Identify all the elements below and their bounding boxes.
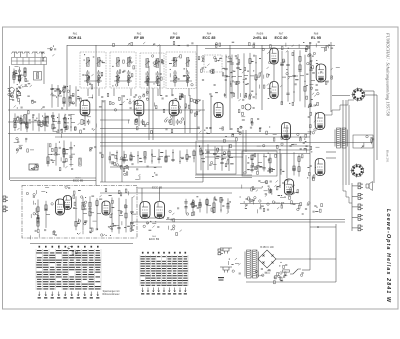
IF lead down xyxy=(87,89,89,97)
switch blob xyxy=(29,164,38,170)
coupling caps xyxy=(194,99,201,116)
loudspeaker/aerial jack at y=204 xyxy=(358,204,363,210)
bus cathode rail xyxy=(8,109,205,111)
wire AGC riser xyxy=(66,45,68,110)
fuse Si1 xyxy=(283,270,290,272)
jack stub xyxy=(352,216,358,218)
choke L5 xyxy=(79,158,82,166)
bridge rectifier Gr1 xyxy=(258,250,276,268)
Fi1 secondary winding xyxy=(87,76,89,83)
svg-text:ECC 80: ECC 80 xyxy=(275,36,288,40)
table pin arrow xyxy=(84,292,86,297)
Fi2 secondary winding xyxy=(128,76,130,83)
UKW tuner enclosure (dash-dot) xyxy=(22,186,137,239)
transformer rating labels xyxy=(251,272,287,284)
wire af feed xyxy=(136,187,262,189)
wire right riser 2 xyxy=(376,95,378,160)
Fi1 core adjust xyxy=(86,60,90,64)
UKW IF output ladder xyxy=(111,197,136,234)
jack stub xyxy=(352,227,358,229)
table pin arrow xyxy=(71,292,73,297)
Fi1 tuning capacitor xyxy=(86,70,90,76)
cathode network xyxy=(75,117,97,133)
UKW input ladder xyxy=(36,200,50,230)
table pin arrow xyxy=(168,288,170,293)
valve V7 ECL 82 triode section xyxy=(282,123,291,140)
Fi2 lead xyxy=(117,77,119,86)
wire right HT rail xyxy=(309,42,311,222)
table pin label xyxy=(38,297,41,298)
cathode lead xyxy=(84,116,86,126)
table pin arrow xyxy=(38,292,40,297)
splitter coupling caps xyxy=(167,208,182,236)
UKW IF output xyxy=(110,200,133,236)
Fi3 winding xyxy=(156,59,159,68)
UKW mixer triode xyxy=(102,201,110,215)
grid components xyxy=(76,95,93,102)
EL95 anode parts xyxy=(316,60,340,84)
valve socket voltage table 1 xyxy=(36,246,101,290)
IF lead down xyxy=(146,89,148,97)
Fi4 secondary winding xyxy=(186,76,188,83)
wire riser c xyxy=(210,95,212,133)
Fi1 winding xyxy=(97,58,100,67)
wire mid rail 2 xyxy=(205,153,310,155)
cathode bypass capacitor xyxy=(176,119,180,125)
wire osc rail xyxy=(8,121,46,123)
loudspeaker/aerial jack at y=193.5 xyxy=(358,194,363,200)
Fi4 secondary adjust xyxy=(186,77,190,81)
wire under tuner xyxy=(30,243,133,245)
table pin arrow xyxy=(163,288,165,293)
wire to detector xyxy=(100,181,203,183)
Fi2 detail xyxy=(112,57,134,87)
wire right riser xyxy=(330,42,332,112)
value labels above filters xyxy=(113,41,194,46)
tone filter parts xyxy=(244,153,277,175)
wire HT riser xyxy=(335,224,337,282)
AF output network xyxy=(240,179,299,214)
svg-text:ECH 81: ECH 81 xyxy=(69,36,82,40)
aerial filter ladder xyxy=(12,67,26,84)
Fi1 detail xyxy=(82,54,105,89)
demodulator row y58 xyxy=(198,55,261,63)
table pin arrow xyxy=(142,288,144,293)
wire top HT run 2 xyxy=(205,48,310,50)
wire af feed 2 xyxy=(100,192,232,194)
Fi3 lead xyxy=(156,78,158,86)
UKW oscillator ladder xyxy=(75,196,101,230)
table pin label xyxy=(141,293,144,294)
AF output row xyxy=(244,195,302,207)
Fi1 secondary winding xyxy=(98,76,100,83)
trimmer C1 xyxy=(10,88,15,93)
top cap row xyxy=(305,45,333,52)
demodulator row y70 xyxy=(201,67,263,76)
IF lead down xyxy=(171,89,173,97)
loudspeaker/aerial jack at y=214.5 xyxy=(358,215,363,221)
junction xyxy=(317,226,319,228)
jack stub xyxy=(352,195,358,197)
wire det riser 2 xyxy=(261,45,263,110)
mixer grid parts xyxy=(50,86,74,109)
tube socket S1 (underside view) xyxy=(352,88,366,102)
table pin label xyxy=(173,293,176,294)
valve V3 EF 89 xyxy=(169,100,179,116)
valve V4 EABC 80 triode xyxy=(214,103,223,118)
mains dropper xyxy=(59,245,77,255)
Fi2 link xyxy=(114,80,132,82)
cathode lead xyxy=(173,116,175,126)
wire riser 3 xyxy=(121,95,123,182)
wire splitter anode a xyxy=(141,188,143,202)
Fi4 winding xyxy=(174,58,177,67)
valve V7 ECL 82 pentode section xyxy=(284,179,293,195)
IF lead down xyxy=(113,89,115,97)
svg-text:ECC 85: ECC 85 xyxy=(203,36,216,40)
svg-text:Rö10: Rö10 xyxy=(76,177,82,179)
Fi2 secondary winding xyxy=(117,76,119,83)
volume control group xyxy=(49,142,74,171)
IF transformer Fi4 shield (dashed) xyxy=(166,52,196,89)
tube socket S2 (underside view) xyxy=(351,164,365,178)
wire riser xyxy=(245,130,247,152)
aerial terminal xyxy=(17,52,23,57)
wire bottom rail left 2 xyxy=(10,180,96,182)
table pin arrow xyxy=(184,288,186,293)
wire riser xyxy=(242,130,244,175)
table pin arrow xyxy=(51,292,53,297)
IF lead down xyxy=(188,89,190,97)
Fi4 lead xyxy=(174,77,176,87)
table pin label xyxy=(146,293,149,294)
demodulator row y95 xyxy=(209,92,256,99)
wire af bus 1 xyxy=(195,174,252,176)
mains filter caps xyxy=(228,258,241,274)
tone switch bank xyxy=(297,202,323,215)
mixer grid ladder xyxy=(50,84,80,108)
oscillator coil L4 xyxy=(46,116,49,124)
bus ground return xyxy=(133,221,345,223)
wire riser a xyxy=(184,95,186,133)
cathode resistor xyxy=(81,120,83,125)
table pin arrow xyxy=(158,288,160,293)
Fi3 secondary winding xyxy=(156,77,158,84)
Fi3 core adjust xyxy=(145,61,149,65)
wire output return xyxy=(166,219,345,221)
interstage coupling xyxy=(99,93,139,111)
valve V11 ECC 83 section a xyxy=(140,202,150,219)
loudspeaker symbol xyxy=(366,182,373,191)
cathode bypass capacitor xyxy=(87,119,91,125)
valve V6 EL 84 xyxy=(270,82,278,99)
ratio detector shield xyxy=(204,55,222,72)
svg-text:EF 89: EF 89 xyxy=(134,36,144,40)
IF lead down xyxy=(157,89,159,97)
output grid parts xyxy=(307,52,319,68)
Fi2 tuning capacitor xyxy=(127,70,131,76)
Fi1 lead xyxy=(87,77,89,86)
Fi4 tuning capacitor xyxy=(173,70,177,76)
Fi2 secondary adjust xyxy=(127,77,131,81)
Fi4 core adjust xyxy=(186,60,190,64)
Fi1 link xyxy=(84,80,102,82)
volume group ladder xyxy=(46,140,75,167)
aerial terminal xyxy=(11,52,17,57)
Fi3 lead xyxy=(146,78,148,86)
wire under tube link xyxy=(100,119,130,121)
wire screen riser 2 xyxy=(152,88,154,140)
Fi1 secondary adjust xyxy=(86,77,90,81)
wire socket right 1 xyxy=(364,90,374,92)
wire jack rail xyxy=(351,183,353,231)
output grid parts 3 xyxy=(307,166,316,181)
Fi2 lead xyxy=(128,77,130,86)
jack stub xyxy=(352,206,358,208)
aerial coupling bar xyxy=(12,58,47,65)
bass control group xyxy=(90,147,102,153)
Fi3 tuning capacitor xyxy=(156,71,160,77)
svg-text:B 250 C 100: B 250 C 100 xyxy=(260,246,274,249)
Fi1 secondary adjust xyxy=(97,77,101,81)
value labels above HT run xyxy=(215,42,328,49)
bus AVC line xyxy=(8,133,310,135)
table pin label xyxy=(96,297,99,298)
Fi3 secondary winding xyxy=(146,77,148,84)
table pin arrow xyxy=(174,288,176,293)
tone register parts xyxy=(361,135,374,148)
valve V12 ECC 85 triode a xyxy=(56,199,65,215)
wave trap winding xyxy=(36,73,38,79)
valve V9 EL 84 xyxy=(315,113,325,130)
valve V11 ECC 83 section b xyxy=(155,202,165,219)
table pin label xyxy=(57,297,60,298)
wire anode to transformer 2 xyxy=(326,157,336,159)
Fi4 secondary winding xyxy=(174,76,176,83)
tone control ladder xyxy=(200,144,234,171)
power transformer T1 xyxy=(245,250,259,278)
wire right riser 1 xyxy=(373,91,375,183)
wire splitter anode b xyxy=(159,188,161,201)
svg-text:EL 95: EL 95 xyxy=(311,36,321,40)
right parts ladder xyxy=(304,54,315,107)
table pin label xyxy=(168,293,171,294)
IF transformer Fi3 shield (dashed) xyxy=(140,53,164,88)
Fi2 tuning capacitor xyxy=(116,70,120,76)
splitter RC ladder xyxy=(184,197,231,213)
table pin label xyxy=(77,297,80,298)
cathode resistor xyxy=(135,120,137,125)
output stage coupling xyxy=(253,181,285,209)
bus heater line xyxy=(55,136,310,138)
neg feedback net xyxy=(306,84,319,107)
cathode resistor xyxy=(170,120,172,125)
svg-text:Blatt 291: Blatt 291 xyxy=(386,150,390,163)
loudspeaker/aerial jack at y=183 xyxy=(358,183,363,189)
table pin arrow xyxy=(179,288,181,293)
demodulator ladder xyxy=(224,53,260,99)
wire switch to rail xyxy=(302,269,310,271)
grid components xyxy=(172,94,184,100)
table pin arrow xyxy=(152,288,154,293)
AGC divider xyxy=(116,164,157,180)
Fi3 core adjust xyxy=(155,61,159,65)
svg-text:EF 89: EF 89 xyxy=(170,36,180,40)
UKW oscillator circuit xyxy=(73,196,102,235)
oscillator ladder xyxy=(51,112,75,133)
grid components xyxy=(130,95,147,103)
wire HT out xyxy=(276,258,336,260)
svg-text:ECC 85: ECC 85 xyxy=(152,186,163,190)
table pin label xyxy=(83,297,86,298)
wire riser xyxy=(286,125,288,178)
jack stub xyxy=(352,185,358,187)
wire speaker lead 3 xyxy=(348,105,350,185)
loudspeaker/aerial jack at y=225 xyxy=(358,225,363,231)
table pin label xyxy=(90,297,93,298)
Fi2 core adjust xyxy=(116,60,120,64)
valve socket voltage table 2 xyxy=(140,252,188,286)
cathode lead xyxy=(138,116,140,126)
Fi1 lead xyxy=(98,77,100,86)
table pin label xyxy=(44,297,47,298)
splitter cathode parts xyxy=(143,221,159,231)
wave trap coil xyxy=(34,72,42,81)
Fi4 tuning capacitor xyxy=(186,70,190,76)
AF driver parts xyxy=(257,126,308,150)
table pin arrow xyxy=(77,292,79,297)
gang capacitor arrow xyxy=(58,86,66,96)
wire mid rail 3 xyxy=(205,156,243,158)
Fi4 secondary adjust xyxy=(173,77,177,81)
Fi1 tuning capacitor xyxy=(97,70,101,76)
AM input tuned circuits xyxy=(8,84,34,104)
oscillator padder group xyxy=(51,114,76,138)
tone control box xyxy=(196,141,236,174)
valve V8 EL 95 xyxy=(316,64,326,82)
wire HT rail left xyxy=(95,45,97,186)
valve V12 ECC 85 triode b xyxy=(64,196,72,210)
Fi3 winding xyxy=(146,59,149,68)
wire between indicator sections xyxy=(273,64,275,82)
pickup symbol xyxy=(220,248,232,254)
wire riser det xyxy=(202,100,204,182)
Fi3 tuning capacitor xyxy=(145,71,149,77)
wire mid rail 1 xyxy=(205,149,310,151)
table pin label xyxy=(64,297,67,298)
svg-text:Röhrenvoltmeter: Röhrenvoltmeter xyxy=(103,293,120,296)
Fi1 core adjust xyxy=(97,60,101,64)
wire det left rail xyxy=(196,45,198,140)
valve V2 EF 89 xyxy=(134,100,144,116)
table pin label xyxy=(152,293,155,294)
wire af bus 2 xyxy=(195,177,252,179)
wire AGC return xyxy=(110,166,162,168)
wire left rail xyxy=(9,66,11,180)
bus HT 2 xyxy=(100,145,310,147)
output grid parts 2 xyxy=(308,112,317,135)
aerial terminal xyxy=(39,52,45,57)
Fi1 winding xyxy=(87,58,90,67)
mains label 220V xyxy=(218,277,224,278)
demodulator row y82 xyxy=(202,79,260,88)
table pin label xyxy=(157,293,160,294)
wire det riser xyxy=(229,45,231,130)
mixer input network xyxy=(13,101,48,130)
volume/tone controls xyxy=(198,126,243,142)
Fi4 core adjust xyxy=(173,60,177,64)
IF transformer Fi1 shield (dashed) xyxy=(80,52,106,88)
table pin label xyxy=(51,297,54,298)
mains connector xyxy=(218,249,223,255)
svg-text:Spannungen mit: Spannungen mit xyxy=(103,290,120,293)
wire to socket xyxy=(332,95,350,97)
wire riser xyxy=(279,150,281,188)
mixer ladder xyxy=(13,113,49,132)
wire socket right 2 xyxy=(365,94,378,96)
mains switch xyxy=(290,269,301,274)
wire top screen feed xyxy=(159,45,161,95)
Fi4 detail xyxy=(169,55,193,86)
wire bottom rail left xyxy=(10,177,96,179)
Fi4 winding xyxy=(186,58,189,67)
wire riser 2 xyxy=(104,100,106,182)
wire riser 1 xyxy=(101,100,103,182)
wire riser b xyxy=(189,95,191,133)
UKW box top row xyxy=(26,186,134,200)
grid network ladder xyxy=(280,50,304,104)
primary side parts xyxy=(277,262,304,280)
table pin label xyxy=(184,293,187,294)
aerial terminal xyxy=(32,52,38,57)
pickup symbol 2 xyxy=(220,267,232,273)
dipole aerial jack 2 xyxy=(3,206,8,212)
cathode bypass capacitor xyxy=(141,119,145,125)
UKW input circuit xyxy=(31,201,54,235)
table pin label xyxy=(178,293,181,294)
valve V10 EL 84 xyxy=(315,159,325,176)
decoupling RC row xyxy=(110,149,195,164)
Fi3 secondary adjust xyxy=(145,78,149,82)
wire rail down xyxy=(309,222,311,270)
wire aerial to switch xyxy=(43,65,45,85)
aerial terminal xyxy=(24,52,30,57)
IF decoupling parts xyxy=(102,154,134,170)
ratio detector parts xyxy=(207,57,222,74)
table pin arrow xyxy=(90,292,92,297)
small can xyxy=(245,104,251,110)
trimmer C2 xyxy=(16,91,20,95)
feedback divider xyxy=(301,132,320,158)
wire screen riser xyxy=(148,66,150,140)
svg-text:FUNKSCHAU · Schaltungssammlung: FUNKSCHAU · Schaltungssammlung 1957/58 xyxy=(386,32,391,117)
tone filter ladder xyxy=(246,153,272,173)
Fi4 link xyxy=(170,80,192,82)
IF transformer Fi2 shield (dashed) xyxy=(110,52,136,88)
output transformer T2 xyxy=(335,128,348,148)
Fi3 detail xyxy=(146,55,164,86)
Fi2 secondary adjust xyxy=(116,77,120,81)
table pin arrow xyxy=(147,288,149,293)
Fi3 link xyxy=(144,81,160,83)
table pin arrow xyxy=(97,292,99,297)
table pin arrow xyxy=(64,292,66,297)
AM/FM switch contacts xyxy=(41,46,56,61)
wire splitter cathode link xyxy=(141,217,164,219)
indicator grid network xyxy=(280,47,297,106)
IF lead down xyxy=(130,89,132,97)
wire top HT run xyxy=(67,45,335,47)
